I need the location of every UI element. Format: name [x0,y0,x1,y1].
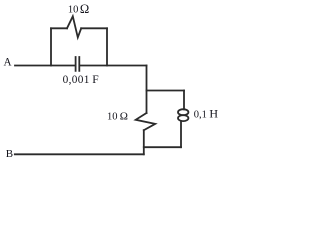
svg-text:B: B [6,148,13,160]
wire main right vertical down to resistor R2 [146,66,148,114]
wire branch to inductor top [147,90,185,92]
wire inductor bottom vertical [180,121,182,147]
svg-text:10: 10 [107,112,118,123]
svg-text:H: H [209,107,218,121]
wire left vertical of parallel block [50,28,52,65]
wire from A to capacitor left plate [15,65,75,67]
wire top-left segment of block [51,27,67,29]
wire from capacitor to right corner node [80,65,147,67]
svg-text:F: F [92,73,99,86]
svg-text:0,001: 0,001 [63,74,90,86]
capacitor C 0,001 F (two plates) [76,57,80,71]
wire from B [15,153,144,155]
wire top-right segment of block [81,27,107,29]
svg-text:A: A [4,56,12,68]
svg-text:0,1: 0,1 [194,110,207,121]
svg-text:Ω: Ω [120,111,128,123]
resistor R2 10 ohm (vertical zigzag) [136,113,156,130]
wire inductor top vertical [183,91,185,110]
inductor L 0,1 H (two loops) [178,109,188,115]
wire right vertical of parallel block [106,28,108,65]
svg-text:10: 10 [68,5,79,16]
wire from resistor R2 bottom to node B wire [143,130,145,154]
resistor R1 10 ohm (top, zigzag) [67,16,81,37]
svg-text:Ω: Ω [80,2,89,16]
wire inductor branch bottom [144,146,181,148]
